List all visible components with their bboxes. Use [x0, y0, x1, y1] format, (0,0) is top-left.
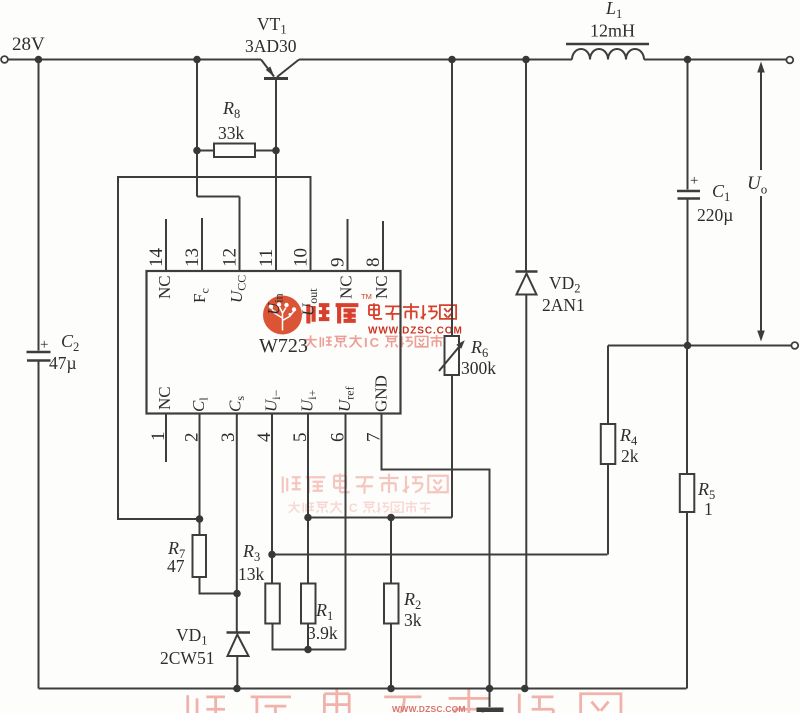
- svg-text:2k: 2k: [621, 446, 639, 466]
- resistor R1: [301, 584, 316, 624]
- capacitor C2: [27, 352, 51, 361]
- svg-text:8: 8: [363, 258, 384, 268]
- wire R6 bottom: [451, 375, 453, 518]
- wire pin3 down to VD1: [236, 414, 238, 633]
- svg-text:R4: R4: [619, 425, 638, 448]
- wire 28V to R8/UCC vertical: [197, 60, 240, 272]
- arrow Uo lower: [760, 196, 762, 331]
- svg-text:9: 9: [328, 258, 349, 268]
- diode VD1: [227, 631, 251, 633]
- node R7-pin3: [233, 590, 241, 598]
- node pin5: [304, 514, 312, 522]
- wire Ui+ net to R6: [308, 517, 452, 519]
- svg-text:GND: GND: [372, 375, 391, 412]
- svg-text:1: 1: [704, 499, 713, 519]
- svg-text:VD2: VD2: [549, 273, 581, 296]
- svg-text:Fc: Fc: [190, 288, 212, 303]
- svg-text:R6: R6: [470, 337, 488, 360]
- watermark outline characters dianzishichangwang: [369, 303, 456, 320]
- watermark mid pale slogan: [288, 501, 342, 513]
- svg-text:Cl: Cl: [189, 397, 211, 412]
- svg-text:WWW.DZSC.COM: WWW.DZSC.COM: [392, 704, 466, 713]
- node VD2 bottom: [521, 685, 529, 693]
- wire R5 bottom to rail: [686, 512, 688, 689]
- svg-text:NC: NC: [372, 275, 391, 299]
- svg-text:L1: L1: [605, 0, 622, 21]
- node pin4: [268, 551, 276, 559]
- wire C1 to output node: [687, 200, 689, 346]
- wire output node line to terminal: [608, 345, 792, 347]
- svg-text:300k: 300k: [461, 358, 496, 378]
- wire rail to C1: [687, 60, 689, 190]
- svg-text:13k: 13k: [238, 564, 265, 584]
- inductor L1: [572, 49, 644, 59]
- svg-text:VD1: VD1: [176, 625, 208, 648]
- watermark bottom banner characters: [188, 689, 621, 713]
- terminal output mid right: [791, 342, 798, 349]
- pin 14 stub: [165, 219, 167, 271]
- wire 28V rail to R6: [451, 60, 453, 337]
- svg-text:NC: NC: [337, 275, 356, 299]
- watermark mid pale row: [283, 474, 448, 494]
- wire top rail right segment: [644, 59, 786, 61]
- svg-text:Uref: Uref: [335, 386, 357, 412]
- svg-text:C1: C1: [712, 181, 730, 204]
- svg-text:47µ: 47µ: [49, 353, 77, 373]
- svg-text:47: 47: [167, 556, 185, 576]
- wire VT1 base to pin11: [275, 79, 277, 271]
- node rail-C2: [35, 56, 43, 64]
- wire C2 branch lower: [38, 362, 40, 689]
- svg-text:3k: 3k: [404, 610, 422, 630]
- svg-text:11: 11: [256, 249, 277, 267]
- terminal input 28V: [1, 56, 8, 63]
- resistor R3: [265, 584, 280, 624]
- svg-text:Ui−: Ui−: [262, 389, 284, 412]
- wire pin6 Uref down: [345, 414, 347, 650]
- wire rail to VD2: [525, 60, 527, 272]
- svg-text:Uin: Uin: [264, 293, 286, 315]
- svg-text:NC: NC: [155, 275, 174, 299]
- wire output node to R4: [607, 346, 609, 425]
- svg-text:4: 4: [254, 432, 275, 442]
- svg-text:7: 7: [364, 433, 385, 443]
- svg-text:14: 14: [146, 248, 167, 268]
- capacitor C1: [677, 191, 700, 199]
- ground: [489, 689, 491, 708]
- pin 9 stub: [347, 219, 349, 271]
- svg-text:10: 10: [291, 248, 312, 267]
- wire C2 branch upper: [38, 60, 40, 351]
- svg-text:+: +: [40, 337, 48, 353]
- svg-text:5: 5: [290, 433, 311, 443]
- node VD1 bottom: [233, 685, 241, 693]
- svg-text:R1: R1: [315, 600, 333, 623]
- wire top rail middle segment: [299, 59, 572, 61]
- svg-text:W723: W723: [259, 335, 308, 357]
- svg-text:13: 13: [182, 248, 203, 267]
- svg-text:1: 1: [148, 432, 169, 442]
- svg-text:R2: R2: [403, 589, 421, 612]
- svg-text:28V: 28V: [12, 34, 45, 55]
- node R2 top: [387, 514, 395, 522]
- variable resistor R6: [445, 336, 460, 375]
- resistor R5: [680, 474, 695, 512]
- node R2 bottom: [387, 685, 395, 693]
- wire bottom rail: [39, 688, 687, 690]
- svg-text:R8: R8: [222, 98, 240, 121]
- wire R3 bottom to Uref: [273, 624, 346, 650]
- svg-text:UCC: UCC: [227, 275, 249, 303]
- watermark brand characters weiku: [308, 304, 358, 323]
- resistor R7: [193, 535, 207, 577]
- node rail-R8: [193, 56, 201, 64]
- svg-text:12: 12: [220, 248, 241, 267]
- svg-text:220µ: 220µ: [697, 205, 733, 225]
- pin 13 stub: [201, 218, 203, 271]
- terminal output top right: [786, 57, 793, 64]
- node Uref-R1R3: [304, 646, 312, 654]
- pin 8 stub: [382, 221, 384, 271]
- IC U1 W723 box: [147, 271, 401, 414]
- wire R4 bottom to Ui- net: [607, 464, 609, 555]
- svg-text:12mH: 12mH: [590, 21, 635, 41]
- wire top rail left segment: [8, 59, 261, 61]
- node R8 left: [193, 147, 201, 155]
- watermark logo circle: [263, 296, 302, 335]
- resistor R4: [601, 424, 616, 464]
- svg-text:Uout: Uout: [299, 288, 321, 316]
- wire Uout net: pin10 up, across, down left side: [118, 177, 311, 519]
- svg-text:R3: R3: [242, 541, 260, 564]
- svg-text:3.9k: 3.9k: [307, 623, 338, 643]
- svg-text:NC: NC: [155, 386, 174, 410]
- svg-text:+: +: [690, 173, 698, 189]
- wire pin5 down through R1: [307, 414, 309, 584]
- svg-text:C2: C2: [61, 331, 79, 354]
- transistor VT1: [261, 60, 274, 77]
- svg-text:3: 3: [218, 433, 239, 443]
- diode VD2: [516, 270, 538, 272]
- svg-text:Cs: Cs: [226, 396, 248, 412]
- wire output node to R5: [686, 346, 688, 475]
- resistor R8: [197, 150, 214, 152]
- node gnd: [486, 685, 494, 693]
- wire pin7 GND routing: [382, 414, 490, 689]
- svg-text:TM: TM: [361, 292, 372, 301]
- node rail-VD2: [522, 56, 530, 64]
- svg-text:6: 6: [328, 433, 349, 443]
- svg-text:IC: IC: [364, 335, 381, 350]
- svg-text:2: 2: [182, 433, 203, 443]
- watermark slogan: [304, 335, 361, 347]
- node rail-C1: [684, 56, 692, 64]
- resistor R2: [390, 518, 392, 584]
- node pin2-CL: [196, 515, 204, 523]
- node C1-out: [684, 342, 692, 350]
- pin 1 stub: [165, 414, 167, 463]
- wire R1 bottom: [307, 624, 309, 650]
- arrow Uo upper: [760, 70, 762, 170]
- wire R7 bottom to pin3 line: [200, 577, 238, 594]
- svg-text:Ui+: Ui+: [298, 389, 320, 412]
- svg-text:Uo: Uo: [747, 173, 767, 197]
- svg-text:3AD30: 3AD30: [245, 36, 297, 56]
- svg-text:VT1: VT1: [257, 14, 287, 37]
- wire Ui- net to R4: [272, 554, 608, 556]
- node rail-R6: [448, 56, 456, 64]
- wire pin4 down through R3: [271, 414, 273, 584]
- wire pin2 down to R7: [199, 414, 201, 536]
- svg-text:WWW.DZSC.COM: WWW.DZSC.COM: [368, 326, 463, 337]
- node R8 right: [272, 147, 280, 155]
- svg-text:2CW51: 2CW51: [160, 648, 214, 668]
- svg-text:2AN1: 2AN1: [542, 295, 585, 315]
- svg-text:33k: 33k: [218, 123, 245, 143]
